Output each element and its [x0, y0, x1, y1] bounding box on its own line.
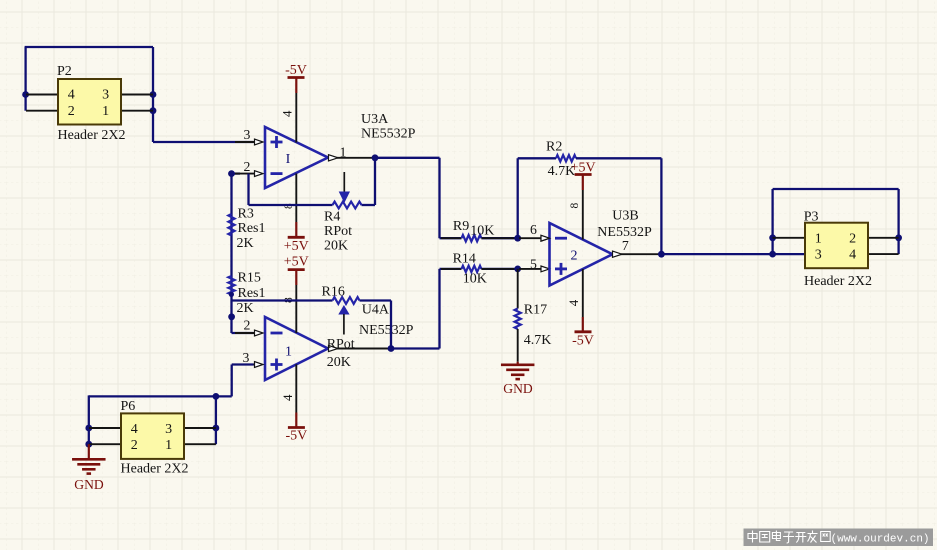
svg-text:Res1: Res1	[238, 286, 266, 301]
svg-text:P3: P3	[804, 209, 819, 224]
wire P2 to U3A pin3	[153, 141, 254, 143]
svg-text:I: I	[286, 152, 291, 167]
pin 6 wire	[519, 237, 541, 239]
R16 wiper arrow	[338, 305, 349, 315]
pin 5 wire	[519, 268, 541, 270]
svg-text:1: 1	[815, 231, 822, 246]
pin 7 output U3B	[621, 253, 661, 255]
node junction P3 pin3	[769, 251, 776, 258]
svg-text:-5V: -5V	[572, 334, 594, 349]
svg-text:+5V: +5V	[284, 239, 309, 254]
svg-text:20K: 20K	[327, 355, 351, 370]
node junction P2 pin4	[22, 91, 29, 98]
svg-text:R4: R4	[324, 210, 340, 225]
svg-text:10K: 10K	[470, 223, 494, 238]
svg-text:1: 1	[285, 345, 292, 360]
node junction U3B out	[658, 251, 665, 258]
svg-text:R14: R14	[453, 252, 476, 267]
wire P3 loop	[771, 189, 773, 254]
resistor R3	[228, 214, 234, 236]
svg-text:GND: GND	[74, 477, 104, 492]
svg-text:10K: 10K	[463, 271, 487, 286]
svg-text:NE5532P: NE5532P	[359, 323, 414, 338]
svg-text:R3: R3	[238, 207, 254, 222]
svg-text:P2: P2	[57, 64, 72, 79]
svg-text:R9: R9	[453, 219, 469, 234]
svg-text:(www.ourdev.cn): (www.ourdev.cn)	[831, 533, 930, 545]
node junction U3A out	[372, 154, 379, 161]
svg-text:Res1: Res1	[238, 221, 266, 236]
power +5V for U3A	[288, 236, 305, 239]
R4 wiper arrow	[343, 172, 345, 192]
svg-text:2: 2	[849, 231, 856, 246]
node junction R15 bottom	[229, 292, 234, 297]
pin 8 line U3B	[582, 190, 584, 240]
node junction P6 pin4	[85, 425, 92, 432]
power +5V for U4A	[288, 268, 305, 271]
wire U4A feedback	[390, 301, 392, 349]
svg-text:R17: R17	[524, 303, 547, 318]
pin 3 arrow U4A	[235, 364, 254, 366]
watermark box	[744, 529, 934, 547]
svg-text:2: 2	[68, 104, 75, 119]
node junction P6 top	[213, 393, 220, 400]
svg-text:3: 3	[243, 350, 250, 365]
op-amp U4A	[265, 317, 328, 380]
node junction U3A pin2	[228, 170, 235, 177]
resistor R17	[515, 309, 521, 330]
power -5V U3B	[575, 330, 592, 333]
svg-text:6: 6	[530, 222, 537, 237]
wire U4A output net	[391, 347, 440, 349]
connector P3 Header 2X2	[773, 237, 805, 239]
node junction P2 pin3	[150, 91, 157, 98]
svg-text:3: 3	[102, 88, 109, 103]
node junction R14/R17	[514, 266, 521, 273]
svg-text:8: 8	[569, 203, 581, 209]
pin 4 line U3A	[295, 93, 297, 143]
svg-text:1: 1	[102, 104, 109, 119]
resistor R15	[228, 276, 234, 295]
pin 8 line U4A	[295, 285, 297, 333]
wire P2 left loop	[24, 47, 26, 111]
svg-text:GND: GND	[503, 381, 533, 396]
pin 6 arrow	[541, 235, 550, 241]
svg-text:NE5532P: NE5532P	[361, 127, 416, 142]
node junction P6 pin3	[213, 425, 220, 432]
svg-text:2K: 2K	[237, 236, 254, 251]
svg-text:4: 4	[68, 88, 75, 103]
wire to R14	[440, 268, 462, 270]
svg-text:NE5532P: NE5532P	[597, 225, 652, 240]
resistor R9	[462, 235, 482, 241]
svg-text:+5V: +5V	[571, 161, 596, 176]
wire U3B out to P3	[661, 253, 805, 255]
svg-text:U3A: U3A	[361, 112, 389, 127]
svg-text:4: 4	[280, 394, 295, 401]
svg-text:4: 4	[131, 422, 138, 437]
pin 2 wire U3A	[232, 172, 241, 174]
svg-text:Header 2X2: Header 2X2	[121, 461, 189, 476]
svg-text:20K: 20K	[324, 238, 348, 253]
svg-text:-5V: -5V	[285, 63, 307, 78]
svg-text:1: 1	[340, 144, 347, 159]
svg-text:4: 4	[849, 248, 856, 263]
svg-text:U4A: U4A	[362, 302, 390, 317]
node junction P6 pin2	[85, 441, 92, 448]
svg-text:4: 4	[566, 299, 581, 306]
node junction P2 pin1	[150, 107, 157, 114]
svg-text:U3B: U3B	[612, 209, 638, 224]
svg-text:1: 1	[165, 438, 172, 453]
node junction U4A out	[388, 345, 395, 352]
svg-text:5: 5	[530, 256, 537, 271]
wire to R9	[440, 237, 462, 239]
watermark CJK glyphs	[748, 531, 757, 543]
wire U3A feedback	[374, 158, 376, 205]
power +5V for U3B	[575, 173, 592, 176]
svg-text:2: 2	[571, 249, 578, 264]
svg-text:-5V: -5V	[286, 429, 308, 444]
ground symbol P6	[88, 444, 90, 459]
node junction P3 pin2	[895, 234, 902, 241]
pin 1 output U4A	[337, 348, 391, 350]
svg-text:2: 2	[244, 159, 251, 174]
resistor R14	[462, 266, 482, 272]
svg-text:RPot: RPot	[327, 337, 355, 352]
svg-text:3: 3	[244, 127, 251, 142]
svg-text:Header 2X2: Header 2X2	[804, 274, 872, 289]
potentiometer R16	[333, 297, 360, 304]
node junction P3 pin1	[769, 234, 776, 241]
svg-text:RPot: RPot	[324, 224, 352, 239]
svg-text:4.7K: 4.7K	[524, 333, 552, 348]
wire U3A output net	[375, 157, 440, 159]
svg-text:+5V: +5V	[284, 254, 309, 269]
connector P2 Header 2X2	[26, 94, 58, 96]
wire R2 net	[517, 158, 519, 238]
svg-text:R15: R15	[238, 271, 261, 286]
pin 8 line U3A	[295, 174, 297, 223]
svg-text:P6: P6	[121, 399, 136, 414]
power -5V top	[288, 76, 305, 79]
resistor R2	[556, 155, 576, 161]
connector P6 Header 2X2	[89, 427, 121, 429]
svg-text:3: 3	[165, 422, 172, 437]
wire R17 stem	[517, 269, 519, 309]
svg-text:R2: R2	[546, 140, 562, 155]
ground symbol R17	[517, 362, 519, 365]
wire inverting net vertical	[230, 174, 232, 333]
pin 4 line U3B	[582, 269, 584, 317]
wire to U4A pin2	[232, 332, 254, 334]
node junction R9/R2	[514, 235, 521, 242]
power -5V bottom U4A	[288, 426, 305, 429]
svg-text:2K: 2K	[237, 301, 254, 316]
svg-text:Header 2X2: Header 2X2	[58, 128, 126, 143]
svg-text:3: 3	[815, 248, 822, 263]
svg-text:2: 2	[131, 438, 138, 453]
svg-text:4: 4	[280, 110, 295, 117]
pin 2 arrow U4A	[235, 332, 254, 334]
svg-text:2: 2	[244, 318, 251, 333]
node junction feedback tee	[228, 313, 235, 320]
pin 4 line U4A	[295, 364, 297, 412]
wire P6 top net	[88, 395, 90, 444]
potentiometer R4	[333, 202, 362, 209]
pin 1 output U3A	[337, 157, 375, 159]
op-amp U3B	[550, 223, 613, 286]
pin 3 arrow U3A	[235, 141, 254, 143]
op-amp U3A	[265, 127, 328, 188]
svg-text:R16: R16	[322, 285, 345, 300]
